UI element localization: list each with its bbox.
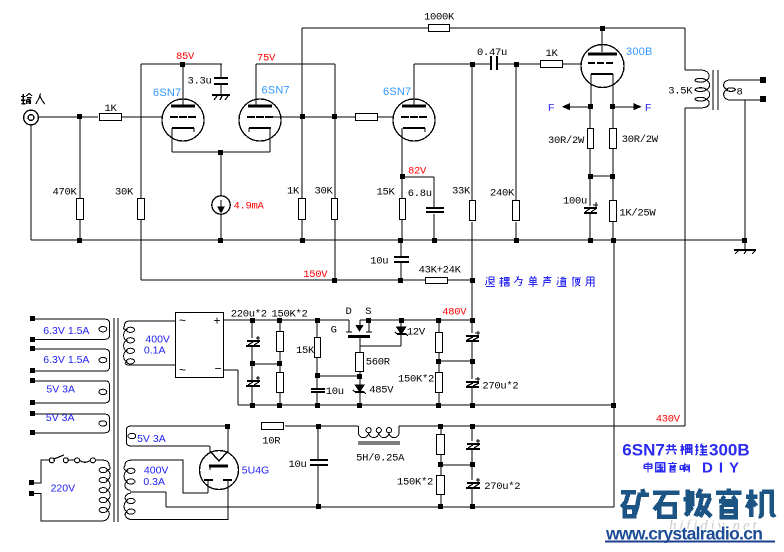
- svg-text:6.3V 1.5A: 6.3V 1.5A: [43, 354, 89, 366]
- svg-text:30R/2W: 30R/2W: [548, 135, 585, 147]
- svg-text:33K: 33K: [452, 186, 471, 198]
- svg-text:150K*2: 150K*2: [272, 308, 308, 320]
- svg-text:~: ~: [179, 314, 186, 328]
- svg-text:6.3V 1.5A: 6.3V 1.5A: [43, 325, 89, 337]
- svg-text:15K: 15K: [296, 345, 315, 357]
- svg-text:560R: 560R: [366, 357, 391, 369]
- svg-text:12V: 12V: [407, 326, 426, 338]
- svg-text:6.8u: 6.8u: [408, 188, 432, 200]
- svg-text:100u: 100u: [563, 196, 587, 208]
- svg-text:S: S: [365, 306, 371, 318]
- svg-text:5V 3A: 5V 3A: [137, 433, 166, 445]
- svg-text:DIY: DIY: [702, 459, 745, 476]
- svg-text:75V: 75V: [257, 53, 276, 65]
- svg-text:270u*2: 270u*2: [482, 380, 518, 392]
- svg-text:220u*2: 220u*2: [231, 308, 267, 320]
- svg-text:220V: 220V: [51, 482, 76, 494]
- svg-text:8: 8: [737, 87, 743, 99]
- svg-text:15K: 15K: [377, 187, 396, 199]
- svg-text:D: D: [346, 306, 352, 318]
- svg-text:470K: 470K: [53, 187, 78, 199]
- svg-text:82V: 82V: [408, 166, 427, 178]
- svg-text:300B: 300B: [709, 441, 750, 460]
- svg-text:1K: 1K: [105, 103, 118, 115]
- svg-text:400V: 400V: [144, 464, 169, 476]
- svg-text:150K*2: 150K*2: [397, 477, 433, 489]
- svg-text:~: ~: [179, 363, 186, 377]
- svg-text:485V: 485V: [369, 385, 394, 397]
- svg-text:0.1A: 0.1A: [144, 344, 166, 356]
- svg-text:30K: 30K: [315, 186, 334, 198]
- svg-text:300B: 300B: [626, 46, 653, 58]
- svg-text:3.3u: 3.3u: [188, 76, 212, 88]
- svg-text:10u: 10u: [370, 256, 388, 268]
- svg-text:6SN7: 6SN7: [153, 87, 181, 99]
- svg-text:1K: 1K: [546, 48, 559, 60]
- svg-text:F: F: [548, 102, 554, 114]
- svg-text:43K+24K: 43K+24K: [419, 264, 462, 276]
- svg-text:150V: 150V: [303, 269, 328, 281]
- svg-text:4.9mA: 4.9mA: [234, 201, 265, 213]
- svg-text:6SN7: 6SN7: [622, 441, 665, 460]
- svg-text:240K: 240K: [490, 188, 515, 200]
- svg-text:150K*2: 150K*2: [398, 373, 434, 385]
- svg-text:1000K: 1000K: [424, 12, 455, 24]
- svg-text:6SN7: 6SN7: [262, 85, 290, 97]
- svg-text:3.5K: 3.5K: [668, 86, 693, 98]
- svg-text:1K: 1K: [287, 186, 300, 198]
- svg-text:−: −: [215, 362, 222, 376]
- svg-text:10u: 10u: [289, 459, 307, 471]
- svg-text:0.47u: 0.47u: [477, 47, 507, 59]
- svg-text:5H/0.25A: 5H/0.25A: [356, 452, 405, 464]
- svg-text:480V: 480V: [442, 307, 467, 319]
- svg-text:10R: 10R: [262, 436, 281, 448]
- svg-text:G: G: [331, 325, 337, 337]
- svg-text:5U4G: 5U4G: [242, 464, 269, 476]
- svg-text:5V 3A: 5V 3A: [46, 412, 75, 424]
- svg-text:30K: 30K: [115, 187, 134, 199]
- svg-text:10u: 10u: [326, 386, 344, 398]
- svg-text:30R/2W: 30R/2W: [622, 134, 659, 146]
- svg-text:6SN7: 6SN7: [383, 86, 411, 98]
- svg-text:F: F: [645, 102, 651, 114]
- svg-text:1K/25W: 1K/25W: [619, 207, 656, 219]
- svg-text:430V: 430V: [656, 414, 681, 426]
- svg-text:270u*2: 270u*2: [484, 481, 520, 493]
- svg-text:5V 3A: 5V 3A: [46, 384, 75, 396]
- svg-text:85V: 85V: [176, 51, 195, 63]
- svg-text:0.3A: 0.3A: [143, 476, 165, 488]
- svg-text:+: +: [214, 314, 221, 328]
